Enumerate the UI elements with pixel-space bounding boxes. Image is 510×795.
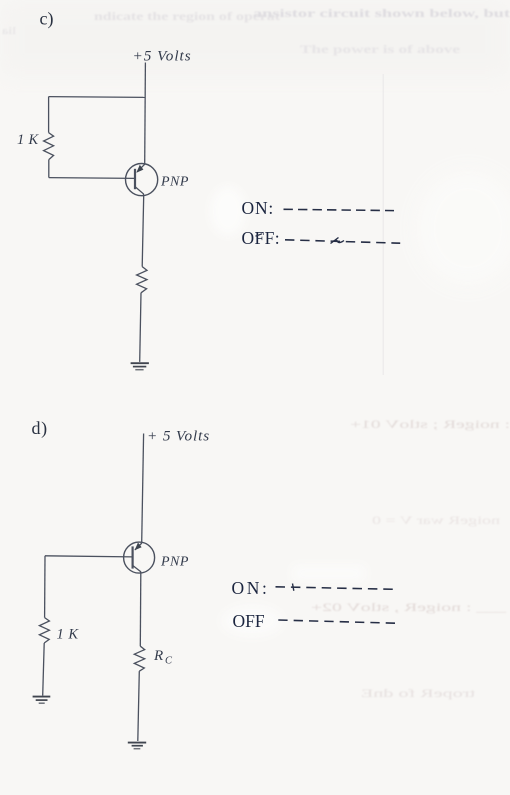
label RC (d) [153, 648, 173, 667]
svg-text:OFF: OFF [233, 611, 265, 631]
transistor Q2 PNP (d) [124, 542, 155, 573]
svg-text:lia: lia [1, 26, 16, 37]
ground (c) [131, 363, 149, 370]
svg-text:ON:: ON: [242, 198, 275, 218]
resistor (collector, unlabeled) (c) [137, 267, 147, 293]
svg-text:ansistor circuit shown below,: ansistor circuit shown below, but [253, 6, 510, 20]
svg-text:ON:: ON: [232, 578, 270, 598]
wire: resistor to base wire (c) [48, 160, 50, 178]
wire: base horizontal (d) [45, 556, 133, 557]
wire: base horizontal (c) [49, 177, 135, 180]
svg-text:R: R [153, 648, 163, 664]
svg-text:: noigeR ; stloV 01+: : noigeR ; stloV 01+ [350, 419, 510, 431]
svg-text:PNP: PNP [160, 175, 189, 190]
blank dashed line OFF (d) [278, 620, 395, 623]
svg-text:PNP: PNP [160, 555, 189, 570]
resistor R2 1K (d) [39, 618, 49, 643]
svg-text:c): c) [40, 9, 54, 30]
svg-text:The power is of above: The power is of above [300, 44, 460, 56]
wire: +5V supply down to emitter (d) [142, 434, 144, 543]
transistor Q1 PNP (c) [126, 164, 158, 196]
svg-text:noigeR war V = 0: noigeR war V = 0 [372, 515, 500, 527]
blank dashed line ON (d) [276, 584, 395, 591]
wire: collector down (d) [139, 573, 142, 646]
label OFF: (c) [242, 228, 281, 248]
wire: to ground (c) [140, 293, 141, 362]
svg-text:tropeR fo dnE: tropeR fo dnE [361, 688, 475, 700]
blank dashed line ON (c) [284, 209, 395, 210]
wire: top horizontal from supply to resistor branch (c) [49, 96, 146, 99]
svg-text:OFF:: OFF: [242, 228, 281, 248]
resistor R1 1K (c) [44, 133, 54, 160]
blank dashed line OFF (c) [285, 238, 400, 244]
wire: collector down (c) [142, 196, 144, 267]
wire: left vertical down to resistor (d) [44, 556, 46, 618]
wire: +5V supply down to emitter (c) [144, 63, 147, 164]
svg-text:d): d) [32, 418, 48, 439]
svg-text:C: C [165, 656, 173, 667]
svg-text:1 K: 1 K [57, 627, 80, 643]
wire: resistor to ground (d) [43, 643, 45, 696]
wire: left vertical down to resistor (c) [48, 97, 50, 133]
wire: RC to ground (d) [138, 671, 140, 741]
svg-text:1 K: 1 K [17, 132, 39, 148]
resistor RC (d) [134, 646, 144, 671]
ground (d left) [33, 697, 51, 704]
svg-text:+ 5 Volts: + 5 Volts [147, 428, 210, 445]
svg-text:___ : noigeR , stloV 02+: ___ : noigeR , stloV 02+ [311, 602, 508, 614]
svg-text:+5 Volts: +5 Volts [133, 48, 192, 65]
ground (d right) [128, 743, 146, 749]
